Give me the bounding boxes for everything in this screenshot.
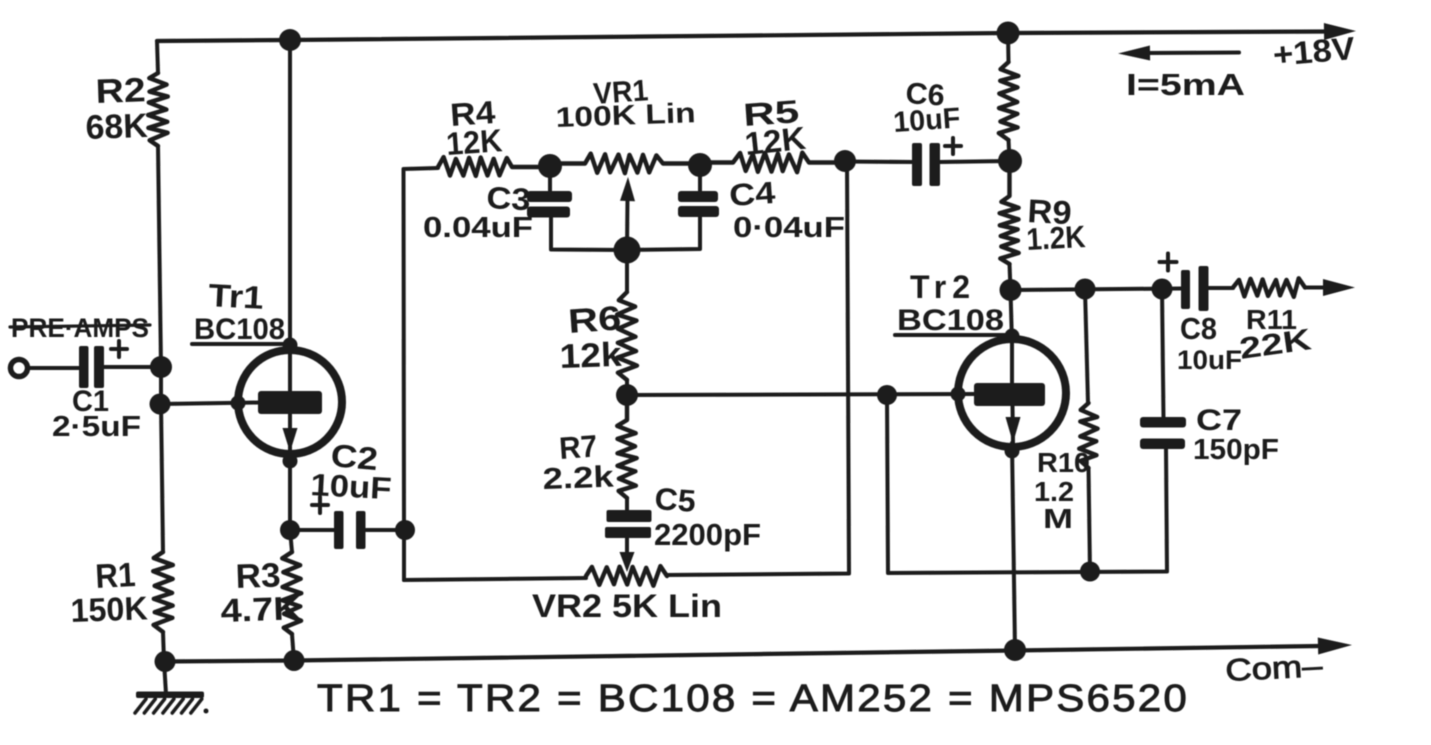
svg-text:4.7K: 4.7K <box>220 589 301 629</box>
svg-text:I=5mA: I=5mA <box>1126 67 1245 102</box>
svg-text:12K: 12K <box>445 122 503 162</box>
svg-text:2·5uF: 2·5uF <box>52 411 141 443</box>
svg-text:100K Lin: 100K Lin <box>555 97 696 133</box>
svg-text:C8: C8 <box>1180 311 1217 346</box>
svg-text:10uF: 10uF <box>310 467 393 506</box>
svg-text:68K: 68K <box>85 107 149 147</box>
svg-text:M: M <box>1043 503 1073 534</box>
svg-text:BC108: BC108 <box>897 304 1004 337</box>
svg-text:R11: R11 <box>1246 304 1297 335</box>
svg-text:0·04uF: 0·04uF <box>733 212 845 244</box>
svg-text:C7: C7 <box>1196 404 1242 437</box>
svg-text:150pF: 150pF <box>1193 434 1279 466</box>
svg-text:12K: 12K <box>743 120 807 162</box>
svg-text:Com–: Com– <box>1225 648 1325 688</box>
svg-text:R2: R2 <box>95 71 146 111</box>
svg-text:1.2K: 1.2K <box>1026 219 1087 257</box>
svg-text:VR2 5K Lin: VR2 5K Lin <box>532 588 722 624</box>
svg-text:TR1 = TR2 = BC108 = AM252 =: TR1 = TR2 = BC108 = AM252 = MPS6520 <box>317 678 1189 720</box>
svg-text:12k: 12k <box>559 336 622 376</box>
svg-text:10uF: 10uF <box>1177 345 1242 375</box>
svg-text:10uF: 10uF <box>892 102 961 139</box>
svg-text:C4: C4 <box>728 175 777 213</box>
svg-text:2.2k: 2.2k <box>542 461 614 496</box>
svg-text:C5: C5 <box>654 481 697 519</box>
svg-text:0.04uF: 0.04uF <box>423 212 533 244</box>
svg-text:2200pF: 2200pF <box>654 517 761 552</box>
svg-text:R6: R6 <box>567 299 623 341</box>
svg-text:Tr2: Tr2 <box>910 269 976 305</box>
svg-text:Tr1: Tr1 <box>208 277 265 316</box>
svg-text:R10: R10 <box>1037 447 1090 478</box>
svg-text:+18V: +18V <box>1271 30 1357 73</box>
svg-text:BC108: BC108 <box>194 313 285 346</box>
svg-text:150K: 150K <box>70 589 148 629</box>
